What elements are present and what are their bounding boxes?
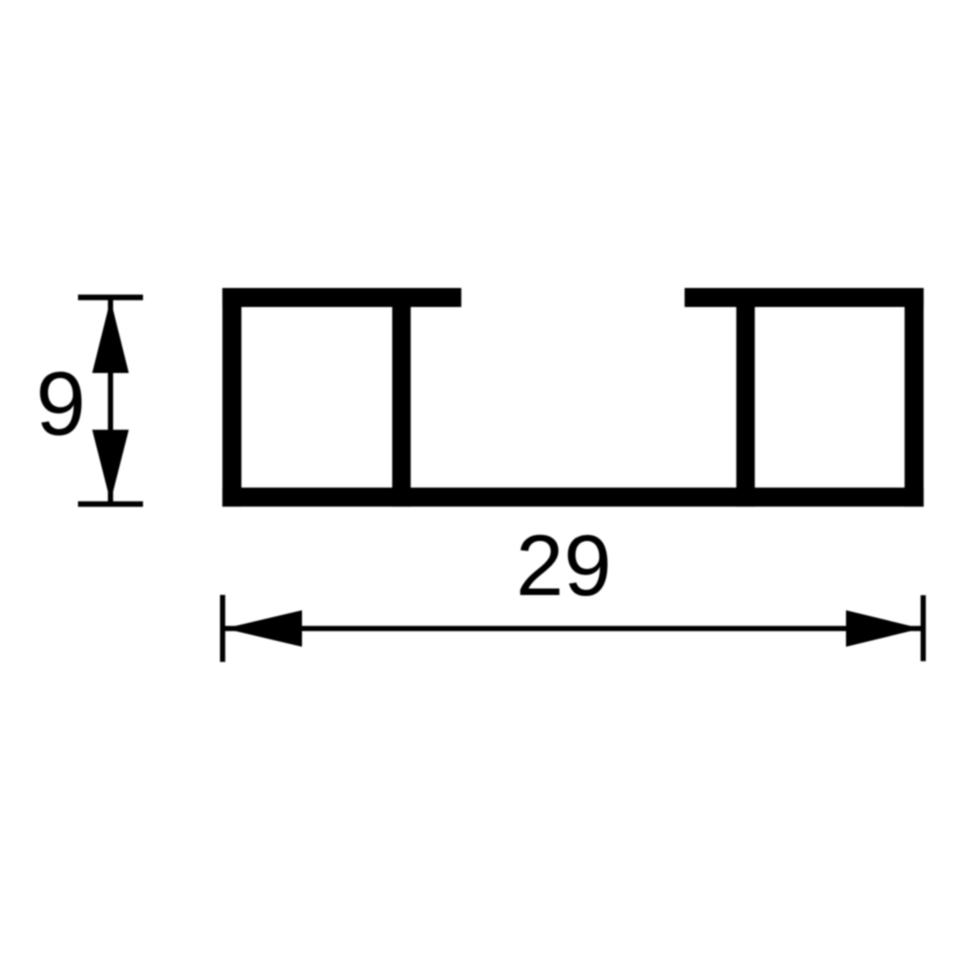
dimension 9: bottom extension tick: [78, 501, 143, 507]
dimension 9: vertical dimension line: [108, 297, 113, 504]
dimension 29: horizontal dimension line: [223, 626, 924, 631]
profile top-left flange: [222, 288, 461, 307]
profile inner right web: [736, 288, 755, 507]
dimension 9: lower arrowhead: [92, 430, 129, 502]
svg-text:9: 9: [36, 354, 86, 454]
profile bottom flange: [222, 488, 923, 507]
profile inner left web: [392, 288, 411, 507]
profile top-right flange: [685, 288, 924, 307]
dimension 9: top extension tick: [78, 295, 143, 301]
dimension 29: right arrowhead: [846, 610, 921, 647]
profile right wall: [905, 288, 924, 507]
svg-text:29: 29: [516, 518, 612, 614]
dimension 29: left extension tick: [220, 595, 225, 662]
profile left wall: [222, 288, 241, 507]
dimension 9: upper arrowhead: [92, 300, 129, 374]
dimension 29: right extension tick: [921, 595, 926, 661]
dimension 29: left arrowhead: [225, 610, 303, 647]
